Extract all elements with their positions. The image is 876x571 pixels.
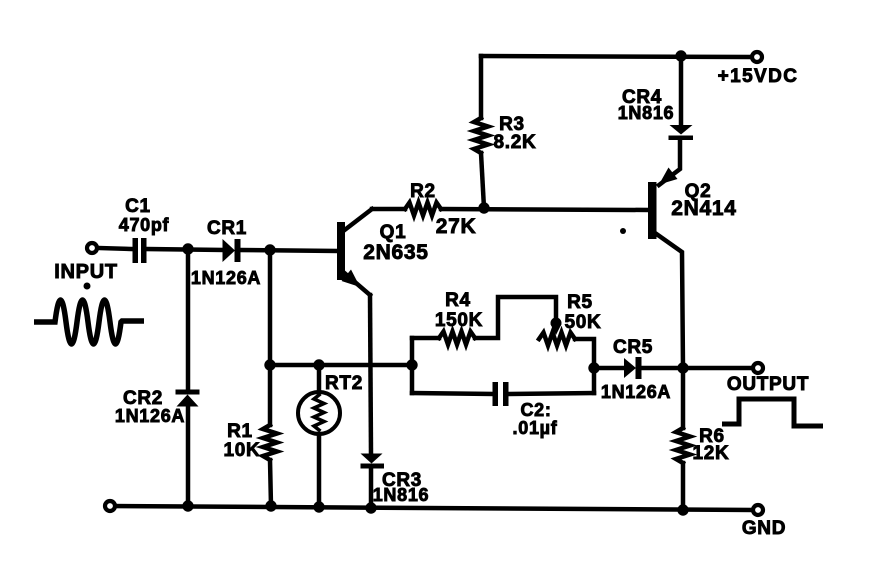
thermistor RT2 [298,392,340,434]
node junction output [677,362,688,373]
wire top rail [481,56,751,57]
wire bottom rail [110,506,752,510]
wire R6 bottom lead [681,463,686,510]
wire Q1 emitter to CR3 [370,295,371,454]
svg-text:12K: 12K [693,443,730,464]
svg-text:150K: 150K [435,310,483,331]
diode CR3 [361,454,385,469]
svg-text:OUTPUT: OUTPUT [727,374,809,395]
svg-text:1N126A: 1N126A [601,382,671,402]
svg-text:27K: 27K [436,215,477,238]
resistor R2 [405,203,441,216]
svg-text:C2:: C2: [520,400,551,420]
wire CR5 left lead [594,366,625,371]
wire R4 left lead [412,336,439,341]
svg-text:CR5: CR5 [613,337,653,358]
node junction CR1-Q1 [264,244,275,255]
node junction rail RT2 [313,501,324,512]
svg-text:1N126A: 1N126A [191,268,261,288]
noise dot near Q2 [620,228,626,234]
square wave symbol [722,399,823,426]
svg-text:1N126A: 1N126A [115,406,185,426]
svg-text:R5: R5 [567,292,593,313]
wire R2 to Q2 base [441,209,648,210]
svg-text:8.2K: 8.2K [494,132,537,153]
capacitor C1 [133,238,147,263]
wire R1 node to resistor [268,365,273,425]
transistor Q1 emitter [342,271,370,295]
svg-text:C1: C1 [125,196,151,217]
wire CR2 to bottom rail [186,406,191,506]
wire mid rail [270,363,412,368]
potentiometer R5 wiper arrow [551,318,562,329]
svg-text:10K: 10K [224,440,261,461]
wire CR1 to Q1 base [240,250,337,251]
svg-text:1N816: 1N816 [373,485,430,505]
wire R5 right lead [575,339,594,393]
noise dot under INPUT [84,283,91,290]
capacitor C2 [493,382,509,406]
node bottom left terminal [105,501,115,511]
transistor Q2 collector [655,233,683,368]
svg-text:470pf: 470pf [119,215,170,235]
svg-text:50K: 50K [565,312,602,333]
svg-text:+15VDC: +15VDC [718,66,799,87]
wire output lead [683,366,752,371]
node junction R4 bracket [406,359,417,370]
wire input lead [98,248,133,249]
wire RT2 bottom lead [317,434,322,507]
resistor R4 [439,332,475,345]
node output terminal [753,363,763,373]
diode CR2 [176,390,200,407]
svg-text:GND: GND [742,518,786,539]
wire R4 left bracket [410,338,415,393]
svg-text:2N635: 2N635 [363,241,428,264]
wire CR3 to bottom rail [369,468,374,508]
wire RT2 top lead [317,365,322,392]
wire R4 to top loop [475,297,556,338]
diode CR1 [223,239,241,262]
node junction C1-CR1 [182,243,193,254]
node input terminal [87,243,97,253]
node junction rail R1 [265,500,276,511]
wire CR4 to Q2 emitter [659,139,680,185]
svg-text:Q1: Q1 [380,222,407,243]
node junction R3-R2 [478,202,489,213]
resistor R3 [474,118,488,153]
transistor Q2 base bar [648,182,657,239]
node junction rail CR2 [182,500,193,511]
wire C2 bottom branch right [509,393,595,394]
diode CR4 [669,125,694,140]
resistor R1 [263,425,277,460]
sine wave symbol [34,300,144,344]
wire C1 to CR1 [147,249,224,250]
node junction rail R6 [677,504,688,515]
resistor R6 [676,428,690,463]
node +15VDC terminal [752,52,762,62]
transistor Q1 emitter arrow [342,270,361,288]
wire CR4 top lead [679,56,684,126]
wire C2 bottom branch left [412,393,493,394]
svg-text:2N414: 2N414 [671,197,736,220]
node junction R1 top [264,359,275,370]
svg-text:R2: R2 [410,181,436,202]
svg-text:R1: R1 [227,421,253,442]
svg-text:R4: R4 [445,290,471,311]
wire R1 bottom lead [270,460,271,506]
wire base rail Q2 [372,207,405,212]
node junction rail CR3 [365,502,376,513]
node GND terminal [753,505,763,515]
transistor Q1 collector [342,209,372,232]
node junction R5-C2 [588,362,599,373]
svg-text:RT2: RT2 [325,373,363,394]
svg-text:CR1: CR1 [207,218,247,239]
wire R1 branch upper [268,250,273,365]
svg-text:1N816: 1N816 [618,103,675,123]
wire Q2 collector to CR5 node down to R6 [681,368,686,428]
resistor R5 [539,333,575,346]
transistor Q1 base bar [337,222,345,280]
svg-text:.01µf: .01µf [513,418,558,438]
svg-text:INPUT: INPUT [54,261,118,283]
transistor Q2 emitter arrow [659,168,678,185]
wire R3 top lead [479,56,484,118]
node junction top rail CR4 [675,50,686,61]
wire R3 bottom lead [481,153,484,208]
wire CR5 right lead [641,366,683,371]
diode CR5 [624,357,642,379]
wire CR2 branch [186,249,191,390]
node junction RT2 top [313,359,324,370]
